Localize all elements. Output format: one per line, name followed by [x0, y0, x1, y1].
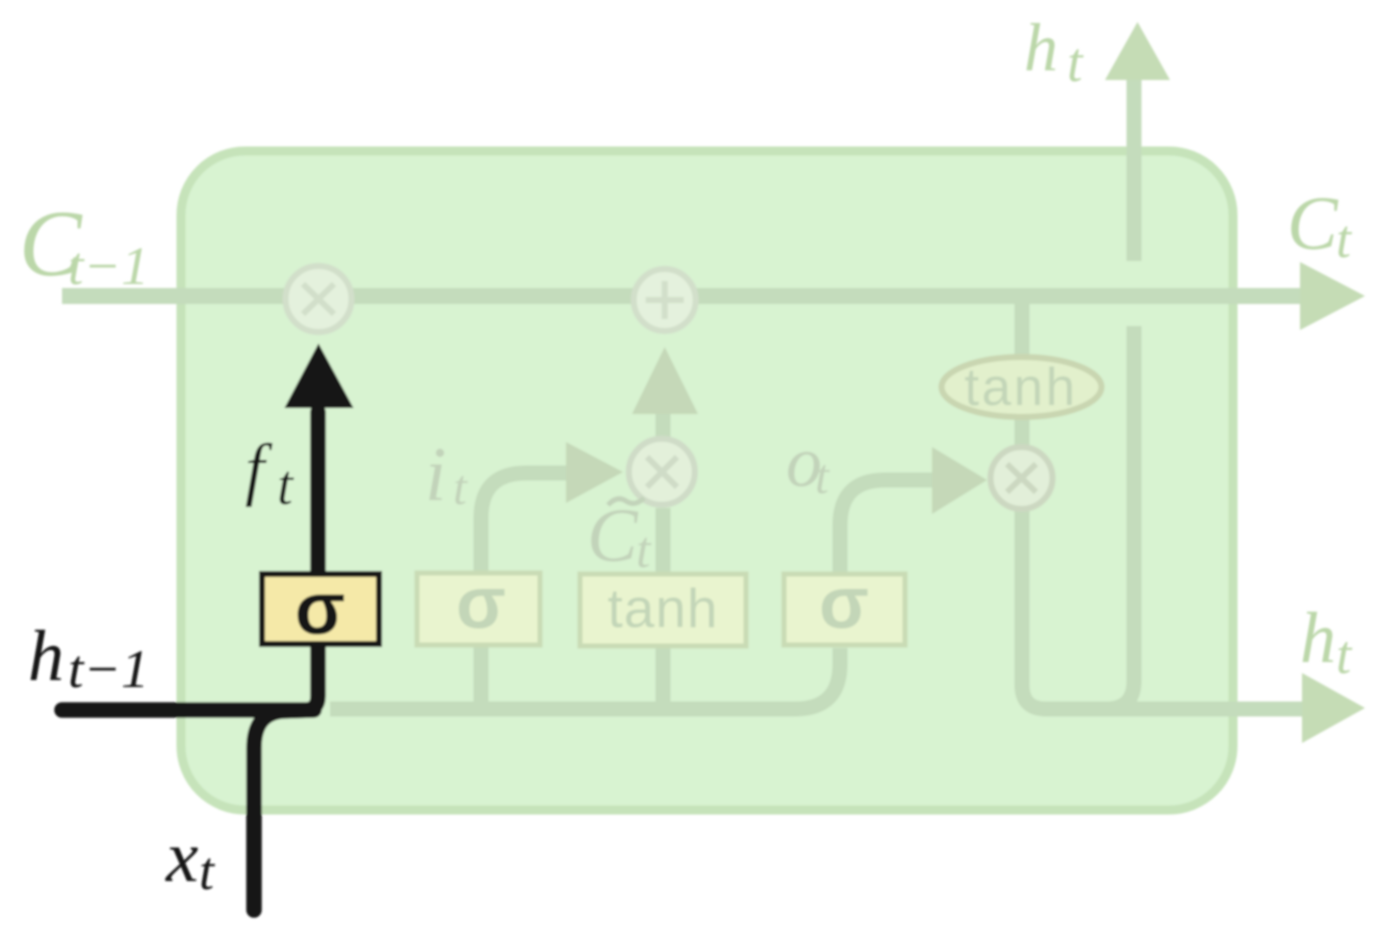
- wire multiply-i to add node: [656, 410, 671, 440]
- svg-text:σ: σ: [819, 563, 869, 644]
- arrowhead o-gate into multiply-o: [932, 447, 987, 514]
- svg-text:t: t: [1336, 624, 1353, 685]
- wire o-gate curve above box: [840, 480, 936, 574]
- wire h branch up at right: [1106, 326, 1134, 709]
- wire h-line faded (after forget branch): [330, 648, 840, 709]
- svg-text:t: t: [1336, 209, 1353, 269]
- svg-text:t: t: [815, 448, 830, 504]
- wire tanh ellipse to multiply-o: [1015, 418, 1030, 448]
- svg-text:x: x: [165, 816, 198, 897]
- svg-text:t−1: t−1: [68, 236, 149, 296]
- svg-text:t: t: [199, 841, 216, 901]
- wire multiply-o down and right to h out: [1022, 510, 1302, 709]
- svg-text:i: i: [425, 431, 446, 517]
- svg-text:t: t: [1067, 32, 1084, 94]
- node add: [634, 269, 696, 331]
- wire h-up upper segment to top arrow: [1127, 76, 1142, 261]
- wire i-gate curve above box: [481, 473, 570, 573]
- box sigma forget gate highlighted: [262, 574, 379, 644]
- svg-text:C: C: [587, 494, 639, 578]
- svg-text:t−1: t−1: [68, 639, 149, 699]
- wire black h_{t-1} input to forget gate: [62, 412, 318, 710]
- wire i-gate stem below box: [474, 645, 489, 709]
- arrowhead h_t top: [1105, 22, 1170, 80]
- box sigma i-gate: [417, 573, 540, 645]
- svg-text:tanh: tanh: [607, 577, 718, 639]
- arrowhead into add node: [632, 347, 698, 414]
- arrowhead black f into multiply-f: [285, 344, 354, 409]
- wire tanh-gate stem below box: [656, 648, 671, 709]
- svg-text:σ: σ: [295, 567, 346, 650]
- svg-text:h: h: [1300, 598, 1336, 678]
- svg-text:h: h: [28, 616, 64, 696]
- node multiply-f: [286, 266, 352, 332]
- svg-text:t: t: [453, 459, 468, 515]
- arrowhead C_t right: [1300, 262, 1365, 330]
- box sigma o-gate: [784, 574, 905, 645]
- wire black x_t input: [254, 710, 314, 910]
- arrowhead i-gate into multiply-i: [566, 442, 623, 503]
- svg-text:tanh: tanh: [964, 358, 1077, 417]
- svg-text:h: h: [1024, 9, 1058, 85]
- svg-text:t: t: [636, 522, 652, 579]
- node multiply-o: [991, 447, 1053, 509]
- wire tanh-gate stem above box: [656, 508, 671, 574]
- node multiply-i: [629, 439, 695, 505]
- wire cell-state line C: [62, 288, 1302, 304]
- LSTM cell body: [181, 151, 1233, 810]
- node tanh ellipse: [942, 357, 1102, 417]
- svg-text:C: C: [1287, 182, 1339, 266]
- arrowhead h_t right: [1302, 673, 1365, 743]
- svg-text:t: t: [277, 454, 294, 517]
- wire C branch down to tanh ellipse: [1015, 300, 1030, 357]
- svg-text:σ: σ: [456, 563, 506, 644]
- box tanh gate: [580, 574, 746, 646]
